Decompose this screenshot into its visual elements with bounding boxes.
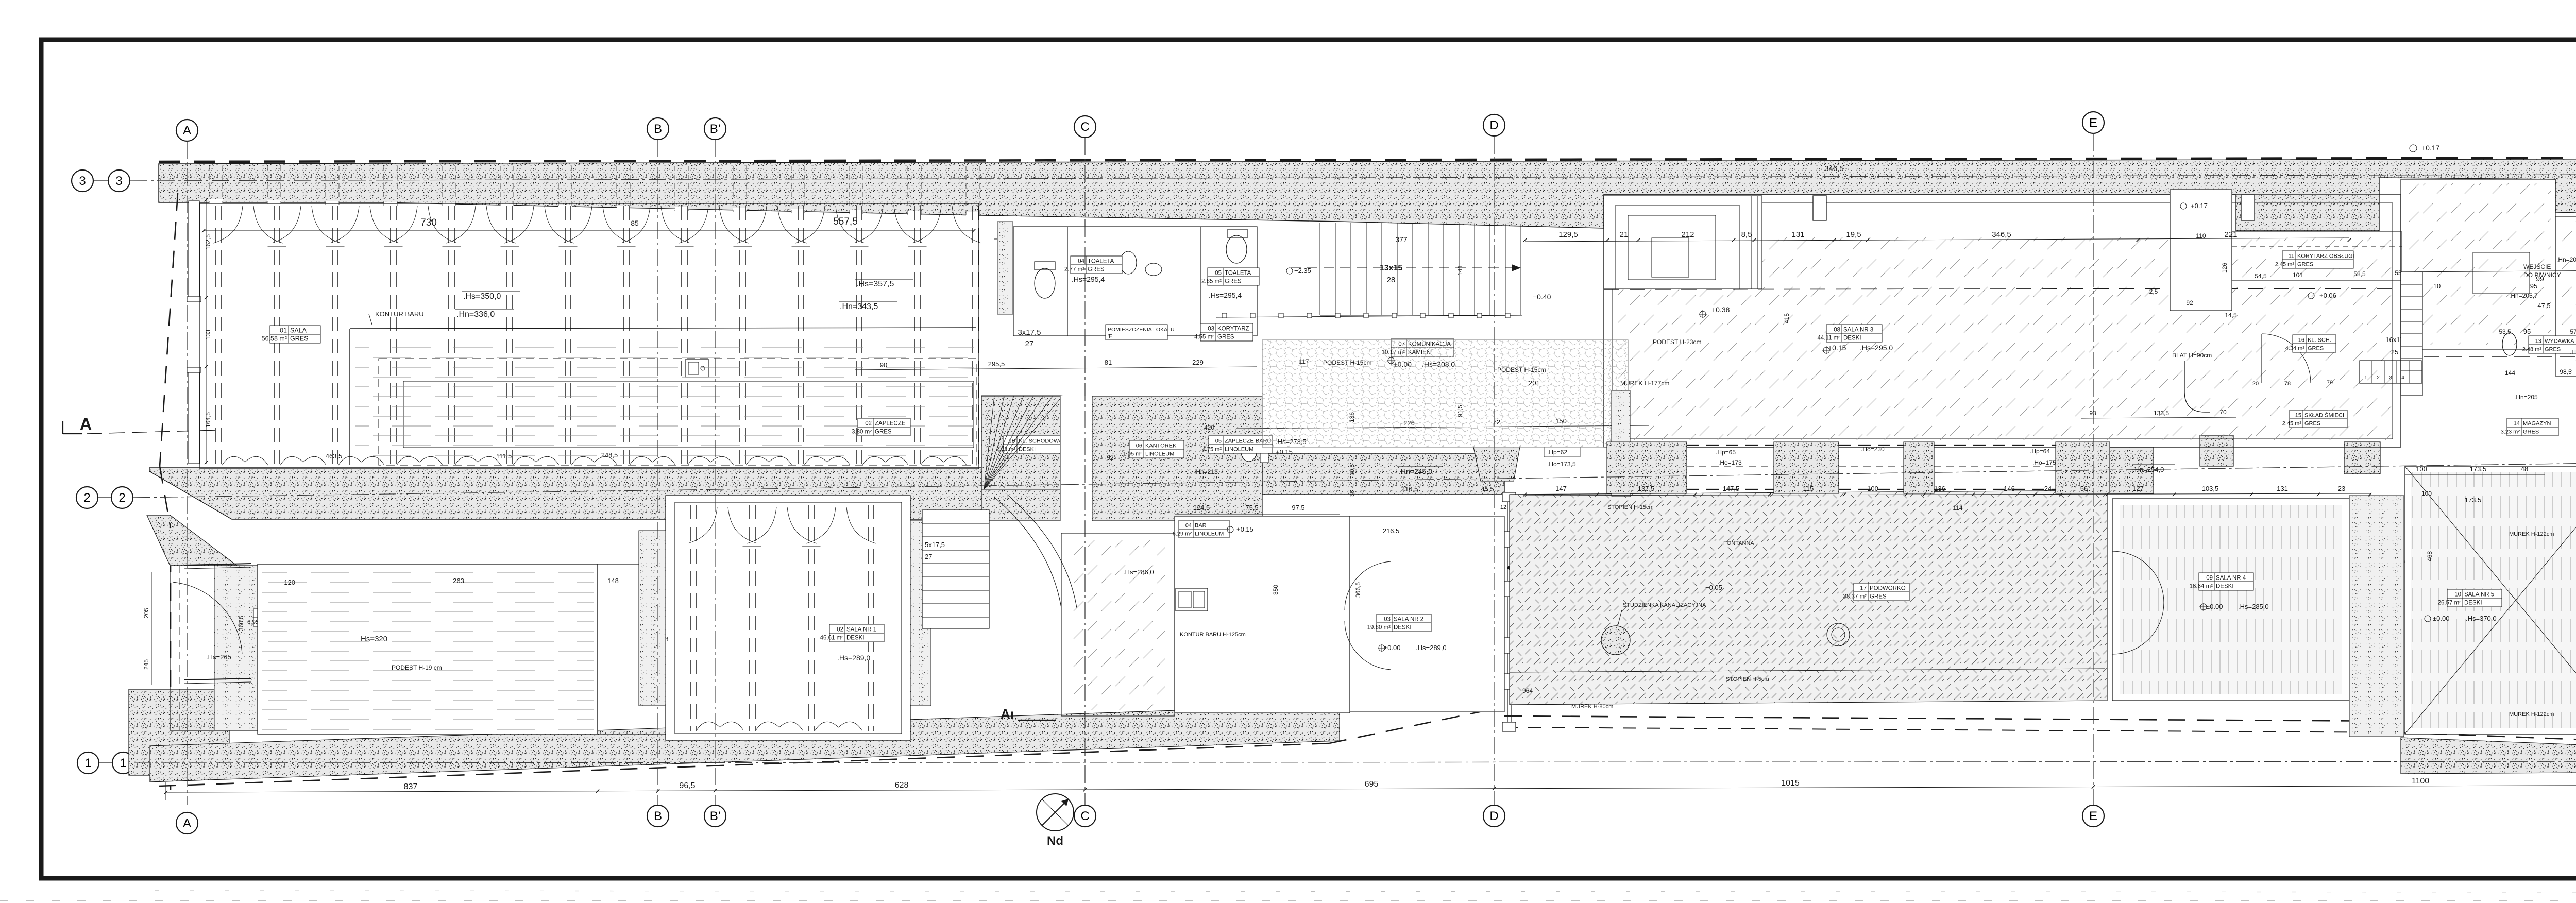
toaleta 05 labels bbox=[1201, 268, 1259, 285]
svg-text:19.80 m²: 19.80 m² bbox=[1367, 625, 1391, 631]
svg-text:229: 229 bbox=[1192, 359, 1204, 366]
svg-text:468: 468 bbox=[2426, 551, 2433, 561]
svg-text:420: 420 bbox=[1204, 424, 1214, 431]
svg-text:100: 100 bbox=[2421, 490, 2432, 497]
svg-text:100: 100 bbox=[1867, 485, 1878, 492]
svg-text:463,5: 463,5 bbox=[326, 452, 343, 460]
svg-text:TOALETA: TOALETA bbox=[1088, 259, 1114, 265]
window dashed openings D-E bbox=[1687, 445, 1774, 446]
vertical grid axis lines bbox=[187, 141, 188, 805]
svg-text:124,5: 124,5 bbox=[1193, 504, 1210, 512]
sink fixture 2 bbox=[1145, 263, 1162, 276]
svg-text:.Hs=295,0: .Hs=295,0 bbox=[1860, 344, 1893, 352]
svg-text:01: 01 bbox=[280, 327, 287, 334]
svg-text:DESKI: DESKI bbox=[1394, 625, 1412, 631]
svg-text:KORYTARZ: KORYTARZ bbox=[1217, 326, 1249, 332]
sala nr 4 bbox=[2112, 499, 2349, 701]
svg-text:26.57 m²: 26.57 m² bbox=[2438, 600, 2462, 606]
svg-text:.Hp=65: .Hp=65 bbox=[1716, 449, 1736, 456]
svg-text:LINOLEUM: LINOLEUM bbox=[1195, 531, 1224, 537]
svg-text:79: 79 bbox=[2327, 380, 2333, 386]
front sala floor bbox=[200, 203, 979, 469]
bottom right wall strip (stippled) bbox=[2401, 738, 2576, 774]
svg-text:KL. SCH.: KL. SCH. bbox=[2308, 337, 2331, 344]
svg-text:MAGAZYN: MAGAZYN bbox=[2523, 421, 2551, 427]
stairwell diag lines bbox=[984, 396, 994, 489]
south wall band left (stippled) bbox=[150, 705, 1340, 782]
label 04 TOALETA bbox=[1064, 256, 1122, 274]
svg-text:101: 101 bbox=[2293, 271, 2303, 279]
svg-text:5x17,5: 5x17,5 bbox=[925, 541, 945, 549]
svg-text:3: 3 bbox=[115, 174, 122, 188]
svg-text:133,5: 133,5 bbox=[2154, 410, 2169, 417]
courtyard herringbone floor bbox=[1510, 490, 2107, 705]
bar room bbox=[1175, 516, 1350, 713]
label POMIESZCZENIA LOKALU bbox=[1106, 325, 1167, 340]
svg-text:GRES: GRES bbox=[2297, 262, 2313, 268]
svg-text:415: 415 bbox=[1783, 313, 1790, 323]
kl sch door arc bbox=[2262, 334, 2311, 383]
middle spine wall band (stippled) bbox=[149, 468, 981, 519]
joist double dashed lines bbox=[215, 206, 216, 466]
sala nr 1 bbox=[666, 496, 910, 740]
svg-text:A: A bbox=[80, 415, 92, 433]
west wall window strip 1 bbox=[189, 201, 199, 297]
svg-text:48: 48 bbox=[2521, 465, 2528, 473]
svg-text:03: 03 bbox=[1384, 617, 1391, 623]
small stair E-F bbox=[2360, 361, 2421, 383]
zaplecze labels bbox=[852, 418, 910, 436]
svg-text:2.45 m²: 2.45 m² bbox=[2282, 421, 2302, 427]
svg-text:173,5: 173,5 bbox=[2465, 496, 2482, 504]
svg-text:30,5: 30,5 bbox=[1349, 464, 1355, 475]
sink fixture 1 bbox=[1120, 251, 1137, 274]
svg-text:GRES: GRES bbox=[1217, 334, 1234, 340]
svg-text:216,5: 216,5 bbox=[1383, 527, 1400, 535]
bar counter outline bbox=[349, 329, 350, 465]
dim chain 129.5 .. 346.5 bbox=[1525, 238, 2349, 242]
window pier blocks D-E bbox=[1607, 442, 1687, 493]
svg-text:C: C bbox=[1080, 809, 1089, 823]
bottom sheet-edge scan noise bbox=[0, 900, 2576, 901]
door arcs sala nr2 bbox=[1345, 561, 1391, 610]
svg-text:.Hn=336,0: .Hn=336,0 bbox=[456, 310, 495, 319]
passage room C-D bbox=[1061, 533, 1175, 716]
svg-text:C: C bbox=[1080, 120, 1089, 134]
svg-text:114: 114 bbox=[1953, 504, 1962, 512]
svg-text:144: 144 bbox=[2505, 369, 2515, 377]
svg-text:45,5: 45,5 bbox=[1481, 485, 1494, 493]
svg-text:346,5: 346,5 bbox=[1824, 164, 1844, 173]
svg-text:103,5: 103,5 bbox=[2202, 485, 2219, 492]
svg-text:±0.00: ±0.00 bbox=[2433, 615, 2449, 622]
svg-text:16.64 m²: 16.64 m² bbox=[2190, 584, 2213, 590]
svg-text:Aı: Aı bbox=[1001, 706, 1014, 722]
svg-text:57,5: 57,5 bbox=[2570, 328, 2576, 335]
svg-text:02: 02 bbox=[865, 421, 872, 427]
svg-text:.Hn=245,0: .Hn=245,0 bbox=[1399, 467, 1432, 475]
lower-left corner block bbox=[129, 689, 229, 775]
svg-text:±0.00: ±0.00 bbox=[2206, 603, 2223, 610]
entry HOL room bbox=[170, 566, 258, 730]
pier trapezoid near D bbox=[1473, 447, 1520, 481]
svg-text:SALA: SALA bbox=[290, 327, 307, 334]
svg-text:263: 263 bbox=[453, 577, 464, 585]
svg-text:133: 133 bbox=[205, 330, 212, 340]
svg-text:4.34 m²: 4.34 m² bbox=[2285, 346, 2305, 352]
svg-text:.Hs=357,5: .Hs=357,5 bbox=[856, 280, 894, 288]
svg-text:38.37 m²: 38.37 m² bbox=[1843, 594, 1867, 600]
svg-text:GRES: GRES bbox=[2545, 347, 2561, 353]
svg-text:78: 78 bbox=[2284, 381, 2291, 387]
svg-text:131: 131 bbox=[2277, 485, 2288, 492]
svg-text:DESKI: DESKI bbox=[846, 635, 865, 641]
west wall window strip 2 bbox=[189, 372, 199, 464]
svg-text:17: 17 bbox=[1860, 586, 1867, 592]
magazyn bbox=[2501, 418, 2558, 436]
grid bubbles top bbox=[176, 120, 198, 141]
svg-text:A: A bbox=[183, 816, 191, 830]
svg-text:SALA NR 2: SALA NR 2 bbox=[1394, 617, 1423, 623]
svg-text:KONTUR BARU: KONTUR BARU bbox=[375, 310, 424, 318]
grid bubbles bottom bbox=[176, 812, 198, 834]
svg-text:21: 21 bbox=[1620, 230, 1629, 239]
svg-text:1: 1 bbox=[84, 756, 91, 770]
svg-text:KORYTARZ OBSŁUGI: KORYTARZ OBSŁUGI bbox=[2297, 253, 2354, 260]
svg-text:.Hs=289,0: .Hs=289,0 bbox=[1416, 644, 1447, 652]
kl sch label bbox=[2285, 335, 2336, 352]
svg-text:+0.06: +0.06 bbox=[2319, 292, 2336, 299]
svg-text:47,5: 47,5 bbox=[2537, 302, 2550, 310]
svg-text:B': B' bbox=[710, 809, 721, 823]
svg-text:628: 628 bbox=[895, 781, 909, 790]
window jambs across north band bbox=[209, 199, 223, 203]
svg-text:MUREK H-80cm: MUREK H-80cm bbox=[1571, 704, 1613, 710]
svg-text:137,5: 137,5 bbox=[1638, 485, 1655, 492]
site boundary dashed left bbox=[170, 525, 172, 790]
svg-text:3.80 m²: 3.80 m² bbox=[852, 429, 872, 435]
svg-text:MUREK H-122cm: MUREK H-122cm bbox=[2509, 531, 2554, 537]
svg-text:2.85 m²: 2.85 m² bbox=[1201, 279, 1222, 285]
svg-text:20: 20 bbox=[2252, 381, 2259, 387]
sala nr 3 room bbox=[1604, 195, 2401, 447]
svg-text:2,5: 2,5 bbox=[2149, 288, 2158, 295]
svg-text:.Hs=265: .Hs=265 bbox=[206, 653, 231, 661]
svg-text:366,5: 366,5 bbox=[1354, 582, 1362, 598]
west wall dim chain bbox=[206, 198, 207, 464]
svg-text:3x17,5: 3x17,5 bbox=[1018, 328, 1041, 337]
svg-text:173,5: 173,5 bbox=[2470, 465, 2487, 473]
zaplecze sink oval bbox=[1241, 437, 1257, 462]
svg-text:.Hp=62: .Hp=62 bbox=[1547, 449, 1567, 456]
svg-text:350: 350 bbox=[1272, 585, 1279, 595]
svg-text:16: 16 bbox=[2298, 337, 2304, 344]
svg-text:TOALETA: TOALETA bbox=[1225, 270, 1251, 277]
horizontal grid axis lines bbox=[130, 174, 2576, 181]
scallop arcs along spine wall bbox=[222, 456, 967, 465]
svg-text:100: 100 bbox=[2416, 465, 2427, 473]
svg-text:.Hs=295,4: .Hs=295,4 bbox=[1072, 275, 1105, 283]
svg-text:.Hn=208: .Hn=208 bbox=[2570, 349, 2576, 356]
scallop arcs along north wall bbox=[213, 206, 981, 246]
svg-text:2: 2 bbox=[83, 491, 90, 505]
svg-text:'F: 'F bbox=[1108, 333, 1112, 339]
svg-text:Hs=320: Hs=320 bbox=[361, 635, 387, 643]
svg-text:03: 03 bbox=[1208, 326, 1214, 332]
svg-text:STOPIEŃ H-15cm: STOPIEŃ H-15cm bbox=[1607, 504, 1654, 510]
svg-text:3: 3 bbox=[79, 174, 86, 188]
svg-text:SALA NR 3: SALA NR 3 bbox=[1843, 327, 1873, 333]
svg-text:148: 148 bbox=[607, 577, 619, 585]
svg-text:02: 02 bbox=[837, 627, 843, 633]
svg-text:1.05 m²: 1.05 m² bbox=[1123, 451, 1143, 457]
svg-text:GRES: GRES bbox=[290, 335, 308, 343]
balustrade posts row above komunikacja bbox=[1216, 315, 1522, 317]
svg-text:09: 09 bbox=[2206, 575, 2213, 582]
label 08 SALA NR 3 bbox=[1817, 325, 1882, 342]
svg-text:+0.15: +0.15 bbox=[1276, 448, 1293, 456]
site boundary dashed top bbox=[159, 158, 2576, 162]
sink in bar bbox=[685, 360, 709, 377]
svg-text:4.75 m²: 4.75 m² bbox=[1202, 447, 1222, 453]
svg-text:2.77 m²: 2.77 m² bbox=[1064, 267, 1084, 273]
svg-text:162,5: 162,5 bbox=[205, 234, 212, 250]
svg-text:SKŁAD ŚMIECI: SKŁAD ŚMIECI bbox=[2304, 412, 2344, 419]
svg-text:212: 212 bbox=[1681, 230, 1694, 239]
passage gap through spine wall bbox=[1060, 396, 1092, 521]
svg-text:KL. SCHODOWA: KL. SCHODOWA bbox=[1019, 438, 1063, 445]
svg-text:SALA NR 4: SALA NR 4 bbox=[2216, 575, 2246, 582]
svg-text:FONTANNA: FONTANNA bbox=[1723, 540, 1754, 547]
svg-text:.Hn=213: .Hn=213 bbox=[1194, 468, 1218, 475]
west site boundary dashed bbox=[160, 193, 178, 466]
bar sink bbox=[1176, 588, 1208, 611]
svg-text:58,5: 58,5 bbox=[2353, 270, 2366, 278]
svg-text:3.23 m²: 3.23 m² bbox=[2501, 429, 2520, 435]
svg-text:DESKI: DESKI bbox=[1843, 335, 1861, 342]
svg-text:2: 2 bbox=[118, 491, 125, 505]
svg-text:12: 12 bbox=[1500, 504, 1506, 510]
white column room (sala nr3 annex) bbox=[2170, 190, 2232, 311]
glazed wall line D bbox=[1507, 493, 1508, 731]
svg-text:14: 14 bbox=[2514, 421, 2520, 427]
svg-text:24: 24 bbox=[2044, 485, 2052, 492]
svg-text:146: 146 bbox=[2004, 485, 2015, 492]
svg-text:−2.35: −2.35 bbox=[1294, 267, 1311, 275]
wejscie do piwnicy room bbox=[2401, 179, 2555, 349]
svg-text:92: 92 bbox=[1107, 454, 1114, 462]
svg-text:46.61 m²: 46.61 m² bbox=[820, 635, 844, 641]
svg-text:44.11 m²: 44.11 m² bbox=[1817, 335, 1840, 342]
svg-text:E: E bbox=[2089, 116, 2097, 130]
cellar stair run 13x15 bbox=[1319, 223, 1320, 315]
svg-text:730: 730 bbox=[420, 217, 437, 228]
svg-text:1100: 1100 bbox=[2412, 777, 2430, 786]
svg-text:BAR: BAR bbox=[1195, 523, 1207, 529]
svg-text:B: B bbox=[654, 809, 662, 823]
svg-text:DESKI: DESKI bbox=[2216, 584, 2234, 590]
svg-text:1015: 1015 bbox=[1781, 779, 1800, 788]
svg-text:131: 131 bbox=[1791, 230, 1804, 239]
svg-text:10: 10 bbox=[2454, 592, 2461, 598]
svg-text:81: 81 bbox=[1105, 359, 1112, 366]
svg-text:2.83 m²: 2.83 m² bbox=[996, 447, 1016, 453]
stone floor corridor bbox=[1262, 340, 1628, 447]
big lower-left room bbox=[258, 564, 598, 734]
svg-text:GRES: GRES bbox=[1088, 267, 1105, 273]
sklad smieci label bbox=[2282, 410, 2347, 428]
svg-text:53,5: 53,5 bbox=[2499, 328, 2511, 335]
svg-text:−0.05: −0.05 bbox=[1705, 584, 1722, 591]
svg-text:13: 13 bbox=[2535, 338, 2541, 345]
svg-text:.Hp=64: .Hp=64 bbox=[2030, 448, 2050, 455]
myjnia room bbox=[2555, 216, 2576, 376]
svg-text:129,5: 129,5 bbox=[1558, 230, 1578, 239]
svg-text:147: 147 bbox=[1555, 485, 1567, 492]
bottom dimension chain bbox=[165, 782, 166, 800]
svg-text:10: 10 bbox=[2433, 282, 2441, 290]
svg-text:Nd: Nd bbox=[1047, 834, 1063, 848]
svg-text:3: 3 bbox=[2389, 375, 2392, 381]
north arrow Nd bbox=[1037, 794, 1074, 831]
toilet room walls bbox=[1013, 227, 1257, 336]
svg-text:KANTOREK: KANTOREK bbox=[1145, 443, 1177, 449]
svg-text:205: 205 bbox=[143, 608, 150, 618]
north exterior wall band (stippled) bbox=[159, 159, 2576, 268]
hol vertical dim chain bbox=[151, 572, 152, 685]
grid axis overlay lines bbox=[187, 141, 188, 805]
svg-text:-120: -120 bbox=[282, 578, 295, 586]
svg-text:.Ho=230: .Ho=230 bbox=[1861, 446, 1885, 453]
lower room B-B prime bbox=[598, 564, 680, 734]
svg-text:164,5: 164,5 bbox=[205, 412, 212, 428]
svg-text:221: 221 bbox=[2224, 230, 2237, 239]
svg-text:19,5: 19,5 bbox=[1846, 230, 1861, 239]
wall strips around sala nr1 bbox=[639, 531, 666, 706]
svg-text:.Hn=205,7: .Hn=205,7 bbox=[2509, 292, 2538, 299]
svg-text:05: 05 bbox=[1215, 270, 1222, 277]
svg-text:.Hs=295,4: .Hs=295,4 bbox=[1209, 291, 1242, 299]
svg-text:GRES: GRES bbox=[2523, 429, 2539, 435]
wc fixture 2 bbox=[1226, 235, 1247, 263]
korytarz stairs treads bbox=[2401, 272, 2422, 396]
svg-text:GRES: GRES bbox=[1870, 594, 1887, 600]
komunikacja label bbox=[1382, 339, 1454, 356]
korytarz obslugi corridor bbox=[2232, 232, 2402, 281]
svg-text:99: 99 bbox=[2536, 275, 2544, 283]
svg-text:WEJŚCIE: WEJŚCIE bbox=[2523, 263, 2551, 270]
svg-text:+0.38: +0.38 bbox=[1711, 305, 1730, 314]
svg-text:.Ho=175: .Ho=175 bbox=[2032, 459, 2056, 466]
svg-text:ZAPLECZE: ZAPLECZE bbox=[875, 421, 906, 427]
svg-text:27: 27 bbox=[1025, 339, 1034, 348]
svg-text:05: 05 bbox=[1215, 438, 1222, 445]
studzienka kanalizacyjna bbox=[1601, 626, 1630, 655]
svg-text:STOPIEŃ H-5cm: STOPIEŃ H-5cm bbox=[1726, 676, 1769, 683]
svg-text:KONTUR BARU H-125cm: KONTUR BARU H-125cm bbox=[1180, 632, 1246, 638]
komunikacja dims bbox=[1236, 425, 1649, 429]
svg-text:+0.17: +0.17 bbox=[2191, 202, 2208, 210]
svg-text:28: 28 bbox=[1387, 276, 1396, 284]
svg-text:.Ho=173: .Ho=173 bbox=[1718, 459, 1742, 466]
svg-text:B: B bbox=[654, 122, 662, 136]
svg-text:13x15: 13x15 bbox=[1380, 264, 1403, 272]
svg-text:2.45 m²: 2.45 m² bbox=[2275, 262, 2295, 268]
courtyard bottom dims bbox=[1510, 669, 2105, 672]
svg-text:245: 245 bbox=[143, 659, 150, 670]
svg-text:2: 2 bbox=[2377, 375, 2380, 381]
svg-text:964: 964 bbox=[1522, 687, 1533, 694]
svg-text:.Hs=350,0: .Hs=350,0 bbox=[463, 292, 501, 301]
svg-text:8,5: 8,5 bbox=[1741, 230, 1752, 239]
svg-text:136: 136 bbox=[1934, 485, 1945, 492]
svg-text:LINOLEUM: LINOLEUM bbox=[1225, 447, 1253, 453]
svg-text:−0.40: −0.40 bbox=[1533, 293, 1551, 301]
svg-text:92: 92 bbox=[2186, 299, 2193, 306]
svg-text:.Hs=286,0: .Hs=286,0 bbox=[1123, 568, 1154, 576]
svg-text:.Hs=370,0: .Hs=370,0 bbox=[2466, 615, 2497, 622]
svg-text:D: D bbox=[1489, 809, 1498, 823]
svg-text:15: 15 bbox=[2295, 413, 2301, 419]
svg-text:2.48 m²: 2.48 m² bbox=[2522, 347, 2542, 353]
svg-text:MUREK H-122cm: MUREK H-122cm bbox=[2509, 711, 2554, 718]
svg-text:WYDAWKA: WYDAWKA bbox=[2545, 338, 2574, 345]
svg-text:36: 36 bbox=[1349, 490, 1355, 497]
wydawka bbox=[2522, 336, 2576, 353]
svg-text:98,5: 98,5 bbox=[2560, 368, 2572, 376]
inner platform nested rects bbox=[1604, 196, 1762, 289]
svg-text:LINOLEUM: LINOLEUM bbox=[1145, 451, 1174, 457]
svg-text:PODWÓRKO: PODWÓRKO bbox=[1870, 585, 1906, 592]
svg-text:04: 04 bbox=[1078, 259, 1084, 265]
svg-text:557,5: 557,5 bbox=[833, 216, 858, 227]
svg-text:PODEST H-19 cm: PODEST H-19 cm bbox=[392, 664, 442, 671]
svg-text:93: 93 bbox=[2089, 410, 2096, 417]
svg-text:95: 95 bbox=[2530, 282, 2537, 290]
korytarz obslugi label bbox=[2275, 251, 2354, 268]
svg-text:127: 127 bbox=[2132, 485, 2144, 492]
corridor E-F dims bbox=[2401, 270, 2576, 272]
svg-text:.Hs=289,0: .Hs=289,0 bbox=[837, 654, 870, 662]
svg-text:.Ho=173,5: .Ho=173,5 bbox=[1547, 461, 1576, 468]
dim 730 bbox=[204, 230, 974, 231]
svg-text:+0.17: +0.17 bbox=[2421, 144, 2440, 152]
svg-text:85: 85 bbox=[631, 219, 639, 227]
wall strip east of sala nr4 bbox=[2349, 496, 2404, 737]
sala nr 3 floor hatch bbox=[1618, 237, 2393, 440]
svg-text:.Hs=285,0: .Hs=285,0 bbox=[2238, 603, 2269, 610]
room label 04 SALA bbox=[262, 326, 320, 343]
svg-text:06: 06 bbox=[1136, 443, 1142, 449]
svg-text:95: 95 bbox=[2523, 328, 2531, 335]
svg-text:D: D bbox=[1489, 118, 1498, 132]
svg-text:56.58 m²: 56.58 m² bbox=[262, 335, 287, 343]
svg-text:837: 837 bbox=[404, 782, 418, 791]
level symbols bbox=[1700, 311, 1706, 317]
svg-text:377: 377 bbox=[1395, 235, 1408, 244]
curved passage C bbox=[994, 497, 1061, 608]
svg-text:STUDZIENKA KANALIZACYJNA: STUDZIENKA KANALIZACYJNA bbox=[1623, 602, 1706, 608]
svg-text:.Hn=343,5: .Hn=343,5 bbox=[840, 302, 878, 311]
svg-text:96,5: 96,5 bbox=[679, 781, 695, 790]
fontanna bbox=[1827, 623, 1850, 646]
svg-text:04: 04 bbox=[1185, 523, 1192, 529]
murek wall strip near D bbox=[1612, 390, 1630, 496]
svg-text:08: 08 bbox=[1834, 327, 1840, 333]
svg-text:54,5: 54,5 bbox=[2255, 272, 2267, 280]
svg-text:25: 25 bbox=[2391, 348, 2398, 356]
svg-text:23: 23 bbox=[2338, 485, 2345, 492]
